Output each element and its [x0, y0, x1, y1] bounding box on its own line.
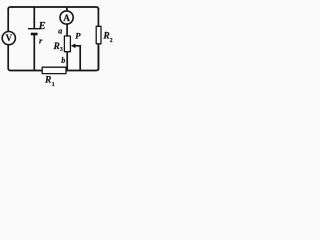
wire left vertical (voltmeter branch)	[7, 8, 9, 69]
rheostat R3 box	[64, 36, 70, 52]
svg-text:V: V	[6, 33, 13, 43]
svg-text:a: a	[58, 27, 62, 36]
svg-text:A: A	[63, 14, 70, 24]
svg-text:R: R	[44, 76, 51, 86]
svg-text:2: 2	[110, 38, 113, 44]
wiper arrowhead P	[71, 44, 76, 49]
svg-text:b: b	[61, 56, 65, 65]
ammeter A circle	[60, 11, 73, 24]
wire bottom	[8, 68, 98, 70]
wire wiper P to right then down	[74, 46, 80, 71]
wire rheostat b terminal down	[66, 52, 68, 71]
svg-text:1: 1	[52, 82, 55, 88]
svg-text:P: P	[75, 30, 81, 40]
battery short thick plate	[31, 33, 38, 36]
wire battery branch upper	[33, 7, 35, 28]
svg-text:E: E	[38, 21, 46, 32]
wire battery branch lower	[33, 35, 35, 71]
svg-text:R: R	[102, 32, 109, 42]
resistor R1 box	[42, 67, 66, 73]
wire R2 lower lead	[97, 44, 99, 71]
voltmeter V circle	[2, 31, 15, 44]
wire right vertical (R2 branch)	[97, 8, 99, 69]
wire ammeter stub	[66, 7, 68, 12]
battery E long plate	[28, 28, 41, 30]
svg-text:R: R	[53, 42, 60, 52]
wire ammeter to rheostat terminal a	[66, 24, 68, 37]
wire top (node from battery+ to ammeter and R2)	[8, 7, 98, 9]
svg-text:3: 3	[60, 47, 63, 53]
background	[0, 0, 125, 92]
resistor R2 box	[96, 26, 101, 44]
